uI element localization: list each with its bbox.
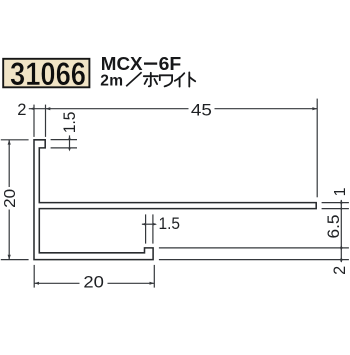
arrow dim45 left [46, 107, 51, 110]
svg-text:45: 45 [191, 101, 212, 119]
mid 1.5 ext lines [145, 214, 147, 243]
svg-text:6.5: 6.5 [325, 215, 343, 239]
arrow right dim at arm top [340, 200, 343, 205]
svg-text:31066: 31066 [10, 56, 86, 92]
svg-text:2: 2 [17, 101, 26, 119]
profile outline [34, 140, 316, 260]
arrow mid1.5 left [142, 223, 146, 226]
right dimension line [340, 200, 342, 262]
spec slash [126, 72, 141, 86]
svg-text:6F: 6F [159, 54, 182, 74]
bottom 20 dimension line [34, 282, 79, 284]
arrow left20 top [8, 140, 11, 145]
right ext lines [322, 202, 349, 204]
kana I [175, 73, 185, 86]
arrow bottom20 left [34, 282, 39, 285]
left 20 dimension line [8, 140, 10, 187]
svg-text:MCX: MCX [101, 54, 143, 74]
svg-text:1.5: 1.5 [61, 112, 79, 133]
code box 31066 [3, 59, 89, 88]
top 1.5 ext lines [51, 139, 77, 141]
svg-text:2m: 2m [100, 73, 123, 90]
ext line x45.5 shared 2/45 [45, 105, 47, 137]
arrow dim2 left [30, 107, 34, 110]
mid 1.5 dimension line [142, 223, 156, 225]
arrow left20 bottom [8, 255, 11, 260]
arrow right dim at lip top [340, 245, 343, 250]
arrow bottom20 right [150, 282, 155, 285]
svg-text:2: 2 [331, 266, 349, 275]
dimension group style [1, 99, 349, 288]
arrow right dim at bottom [340, 257, 343, 262]
svg-text:1.5: 1.5 [159, 214, 181, 233]
top 1.5 dimension line [69, 135, 71, 148]
kana HO [144, 73, 158, 87]
arrow dim45 right [312, 107, 317, 110]
ext line x34 for dim 2 [33, 105, 35, 137]
arrow right dim at arm bottom [340, 207, 342, 211]
arrow top1.5 lower [68, 148, 71, 152]
arrow top1.5 upper [68, 136, 71, 140]
top dimension line (2 and 45) [29, 108, 189, 110]
kana TO [189, 72, 195, 86]
arrow mid1.5 right [153, 223, 157, 226]
svg-text:20: 20 [2, 189, 19, 208]
svg-text:20: 20 [83, 274, 104, 292]
arrowheads [8, 107, 343, 285]
left 20 ext lines [1, 139, 29, 141]
bottom 20 ext lines [33, 265, 35, 288]
svg-text:1: 1 [332, 187, 349, 196]
ext line x317.2 for dim 45 [316, 99, 318, 198]
kana WA [160, 75, 172, 86]
